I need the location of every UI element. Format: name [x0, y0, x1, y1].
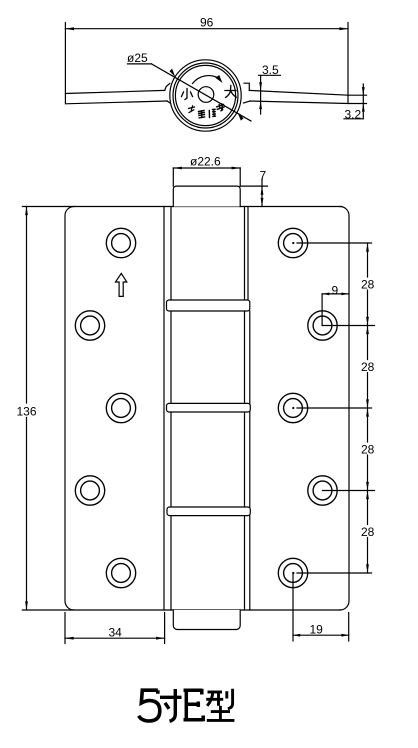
- svg-text:34: 34: [109, 626, 123, 640]
- dial text liang: [199, 111, 205, 118]
- svg-text:136: 136: [17, 405, 37, 419]
- svg-text:28: 28: [361, 360, 375, 374]
- right leaf inner edge: [244, 207, 246, 611]
- svg-text:9: 9: [332, 284, 339, 298]
- chain arrows row2: [366, 317, 369, 334]
- barrel right edge section1: [247, 207, 249, 301]
- dial text li (force): [189, 106, 195, 113]
- title glyph E: [184, 689, 204, 722]
- extension row1: [297, 242, 372, 244]
- left leaf inner edge: [163, 207, 165, 611]
- chain arrows row1: [366, 243, 369, 252]
- screw hole L4: [75, 476, 104, 505]
- leaf bottom edge with extension: [22, 609, 340, 611]
- chain arrows row4: [366, 482, 369, 499]
- screw hole L1: [106, 228, 135, 257]
- extension row3: [297, 407, 372, 409]
- barrel right edge lower sections: [249, 311, 251, 610]
- clockwise adjust arc arrow: [193, 76, 221, 84]
- dimension 136: [25, 207, 28, 611]
- chain arrows row3: [366, 399, 369, 416]
- hinge leaf left (edge view): [65, 90, 167, 103]
- screw hole R2: [308, 311, 337, 340]
- center pin circle: [198, 87, 214, 103]
- barrel top cap: [173, 186, 240, 206]
- dimension 19: [293, 573, 349, 641]
- svg-text:19: 19: [310, 623, 324, 637]
- TITLE: [139, 689, 235, 722]
- svg-text:96: 96: [200, 16, 214, 30]
- dimension 3.2: [344, 84, 367, 119]
- extension row5: [297, 572, 372, 574]
- screw hole R5: [278, 558, 307, 587]
- knuckle collar 3: [167, 507, 250, 516]
- title glyph cun: [160, 689, 182, 721]
- screw hole R1: [278, 228, 307, 257]
- title glyph xing: [206, 689, 234, 721]
- dimension 7: [240, 179, 267, 207]
- dimension diameter 22.6: [173, 167, 240, 187]
- dimension 3.5: [259, 75, 281, 114]
- screw hole L5: [106, 558, 135, 587]
- up arrow marker: [116, 273, 127, 296]
- screw hole L3: [106, 393, 135, 422]
- left leaf left edge: [65, 207, 74, 611]
- screw hole R4: [308, 476, 337, 505]
- dimension 9: [322, 293, 349, 326]
- dimension 34: [65, 613, 165, 644]
- chain arrows row5: [366, 564, 369, 573]
- leaf right flare to knuckle: [244, 83, 251, 103]
- knuckle collar 2: [167, 403, 251, 412]
- svg-text:28: 28: [361, 442, 375, 456]
- glyph xiao (small): [182, 89, 193, 100]
- svg-text:7: 7: [260, 169, 267, 183]
- extension row2: [323, 325, 375, 327]
- screw hole L2: [75, 311, 104, 340]
- knuckle collar 1: [167, 300, 250, 311]
- svg-text:3.2: 3.2: [345, 107, 362, 121]
- right leaf right edge: [340, 207, 349, 611]
- screw hole R3: [278, 393, 307, 422]
- hinge leaf right (edge view): [249, 90, 348, 103]
- dial text jie: [217, 104, 224, 111]
- barrel left edge: [170, 207, 172, 611]
- barrel bottom cap: [173, 610, 240, 630]
- FRONTVIEW: [17, 155, 375, 644]
- knuckle outer circle: [170, 60, 241, 131]
- leaf top edge with extension: [22, 206, 341, 208]
- hole center dots: [292, 242, 294, 574]
- dimension chain 28 vertical line: [367, 243, 369, 573]
- svg-text:ø25: ø25: [127, 51, 148, 65]
- dimension 96 line: [65, 23, 348, 96]
- TOPVIEW: [65, 16, 366, 132]
- svg-text:3.5: 3.5: [262, 63, 279, 77]
- dial text tiao: [209, 109, 215, 117]
- svg-text:28: 28: [361, 277, 375, 291]
- svg-text:ø22.6: ø22.6: [190, 155, 221, 169]
- diameter 25 leader line: [128, 64, 252, 121]
- leaf left flare to knuckle: [165, 83, 171, 103]
- extension row4: [323, 490, 375, 492]
- glyph da (big): [225, 86, 236, 98]
- title glyph 5: [139, 690, 160, 721]
- svg-text:28: 28: [361, 525, 375, 539]
- knuckle ring circle 2: [175, 65, 235, 125]
- knuckle ring circle 1: [173, 63, 238, 128]
